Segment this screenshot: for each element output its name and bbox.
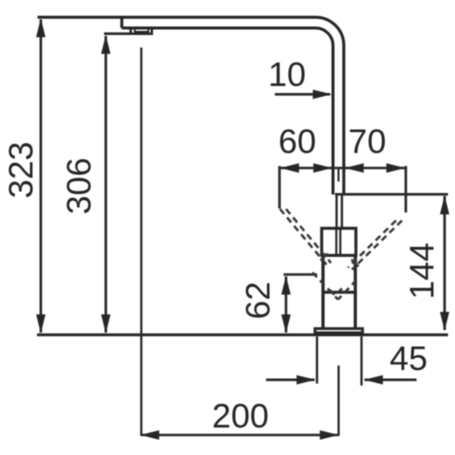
dim line 62	[285, 277, 288, 333]
dim line 45 left segment	[266, 378, 315, 381]
dim line 45 right segment	[365, 378, 417, 381]
dashed lever position left line 2	[286, 209, 331, 263]
shank extension line right	[360, 336, 362, 385]
dim line 60/70	[280, 167, 406, 170]
arrowhead 144 top	[440, 195, 449, 214]
spout outer outline (top line + right curve + outer pipe line)	[38, 17, 344, 194]
dashed chevron at handle corner left	[321, 254, 328, 261]
centre line below body (200 dim right reference)	[338, 366, 340, 437]
svg-text:70: 70	[348, 123, 386, 161]
deck / counter line	[37, 333, 448, 336]
dim line 144	[443, 196, 446, 330]
arrowhead 323 top	[36, 18, 45, 37]
svg-text:45: 45	[390, 340, 428, 378]
arrowhead 10 right	[313, 90, 332, 99]
dashed lever tip small v	[330, 289, 342, 296]
svg-text:10: 10	[268, 56, 306, 94]
arrowhead 62 bottom	[281, 314, 290, 333]
centre line through aerator (200 dim left reference)	[140, 48, 142, 437]
lever rod inside handle block	[335, 228, 337, 255]
extension line 60 left	[278, 166, 281, 209]
svg-text:62: 62	[239, 282, 277, 320]
arrowhead 306 bottom	[101, 314, 110, 333]
aerator insert rectangle	[135, 29, 149, 32]
extension line 306 top (merges with aerator bottom)	[104, 32, 131, 35]
arrowhead 200 left	[140, 430, 159, 439]
dashed lever position left line 1	[280, 209, 329, 267]
shank extension line left	[316, 336, 318, 383]
svg-text:200: 200	[212, 398, 269, 436]
spout left end edge	[120, 16, 123, 28]
arrowhead 70 left	[345, 163, 364, 172]
dim line 306	[105, 36, 108, 333]
base plate	[315, 329, 363, 333]
svg-text:306: 306	[60, 158, 98, 215]
arrowhead 60 left	[280, 163, 299, 172]
lever rod above handle	[335, 195, 337, 229]
spout inner outline (bottom line + inner curve + inner pipe line)	[122, 28, 333, 195]
arrowhead 60 right	[313, 163, 332, 172]
faucet body right edge	[354, 255, 357, 328]
arrowhead 62 top	[281, 276, 290, 295]
dim line 200	[141, 434, 338, 437]
arrowhead 200 right	[320, 430, 339, 439]
arrowhead 306 top	[101, 35, 110, 54]
arrowhead 323 bottom	[36, 314, 45, 333]
extension line 70 right	[404, 166, 407, 213]
centre tick below 60/70 dim line	[338, 168, 340, 182]
svg-text:60: 60	[278, 123, 316, 161]
dashed chevron at handle corner right	[352, 260, 359, 267]
extension line 144 top	[335, 193, 448, 196]
body joint line	[322, 291, 357, 294]
arrowhead 70 right	[386, 163, 405, 172]
arrowhead 45 left (points right)	[297, 375, 316, 384]
arrowhead 144 bottom	[440, 312, 449, 331]
handle block	[322, 228, 356, 255]
dashed lever position right line 2	[348, 221, 396, 268]
extension line 62 top	[284, 273, 318, 276]
aerator housing bump	[131, 28, 152, 34]
dim line 323	[39, 20, 42, 333]
dim line 10 (leader)	[275, 93, 330, 96]
dashed lever tip V right arm	[338, 280, 357, 300]
dashed lever position right line 1	[352, 221, 402, 270]
dashed lever tip V left arm	[313, 273, 339, 300]
faucet body left edge	[321, 255, 324, 328]
arrowhead 45 right (points left)	[364, 375, 383, 384]
svg-text:144: 144	[403, 243, 441, 300]
svg-text:323: 323	[2, 142, 40, 199]
